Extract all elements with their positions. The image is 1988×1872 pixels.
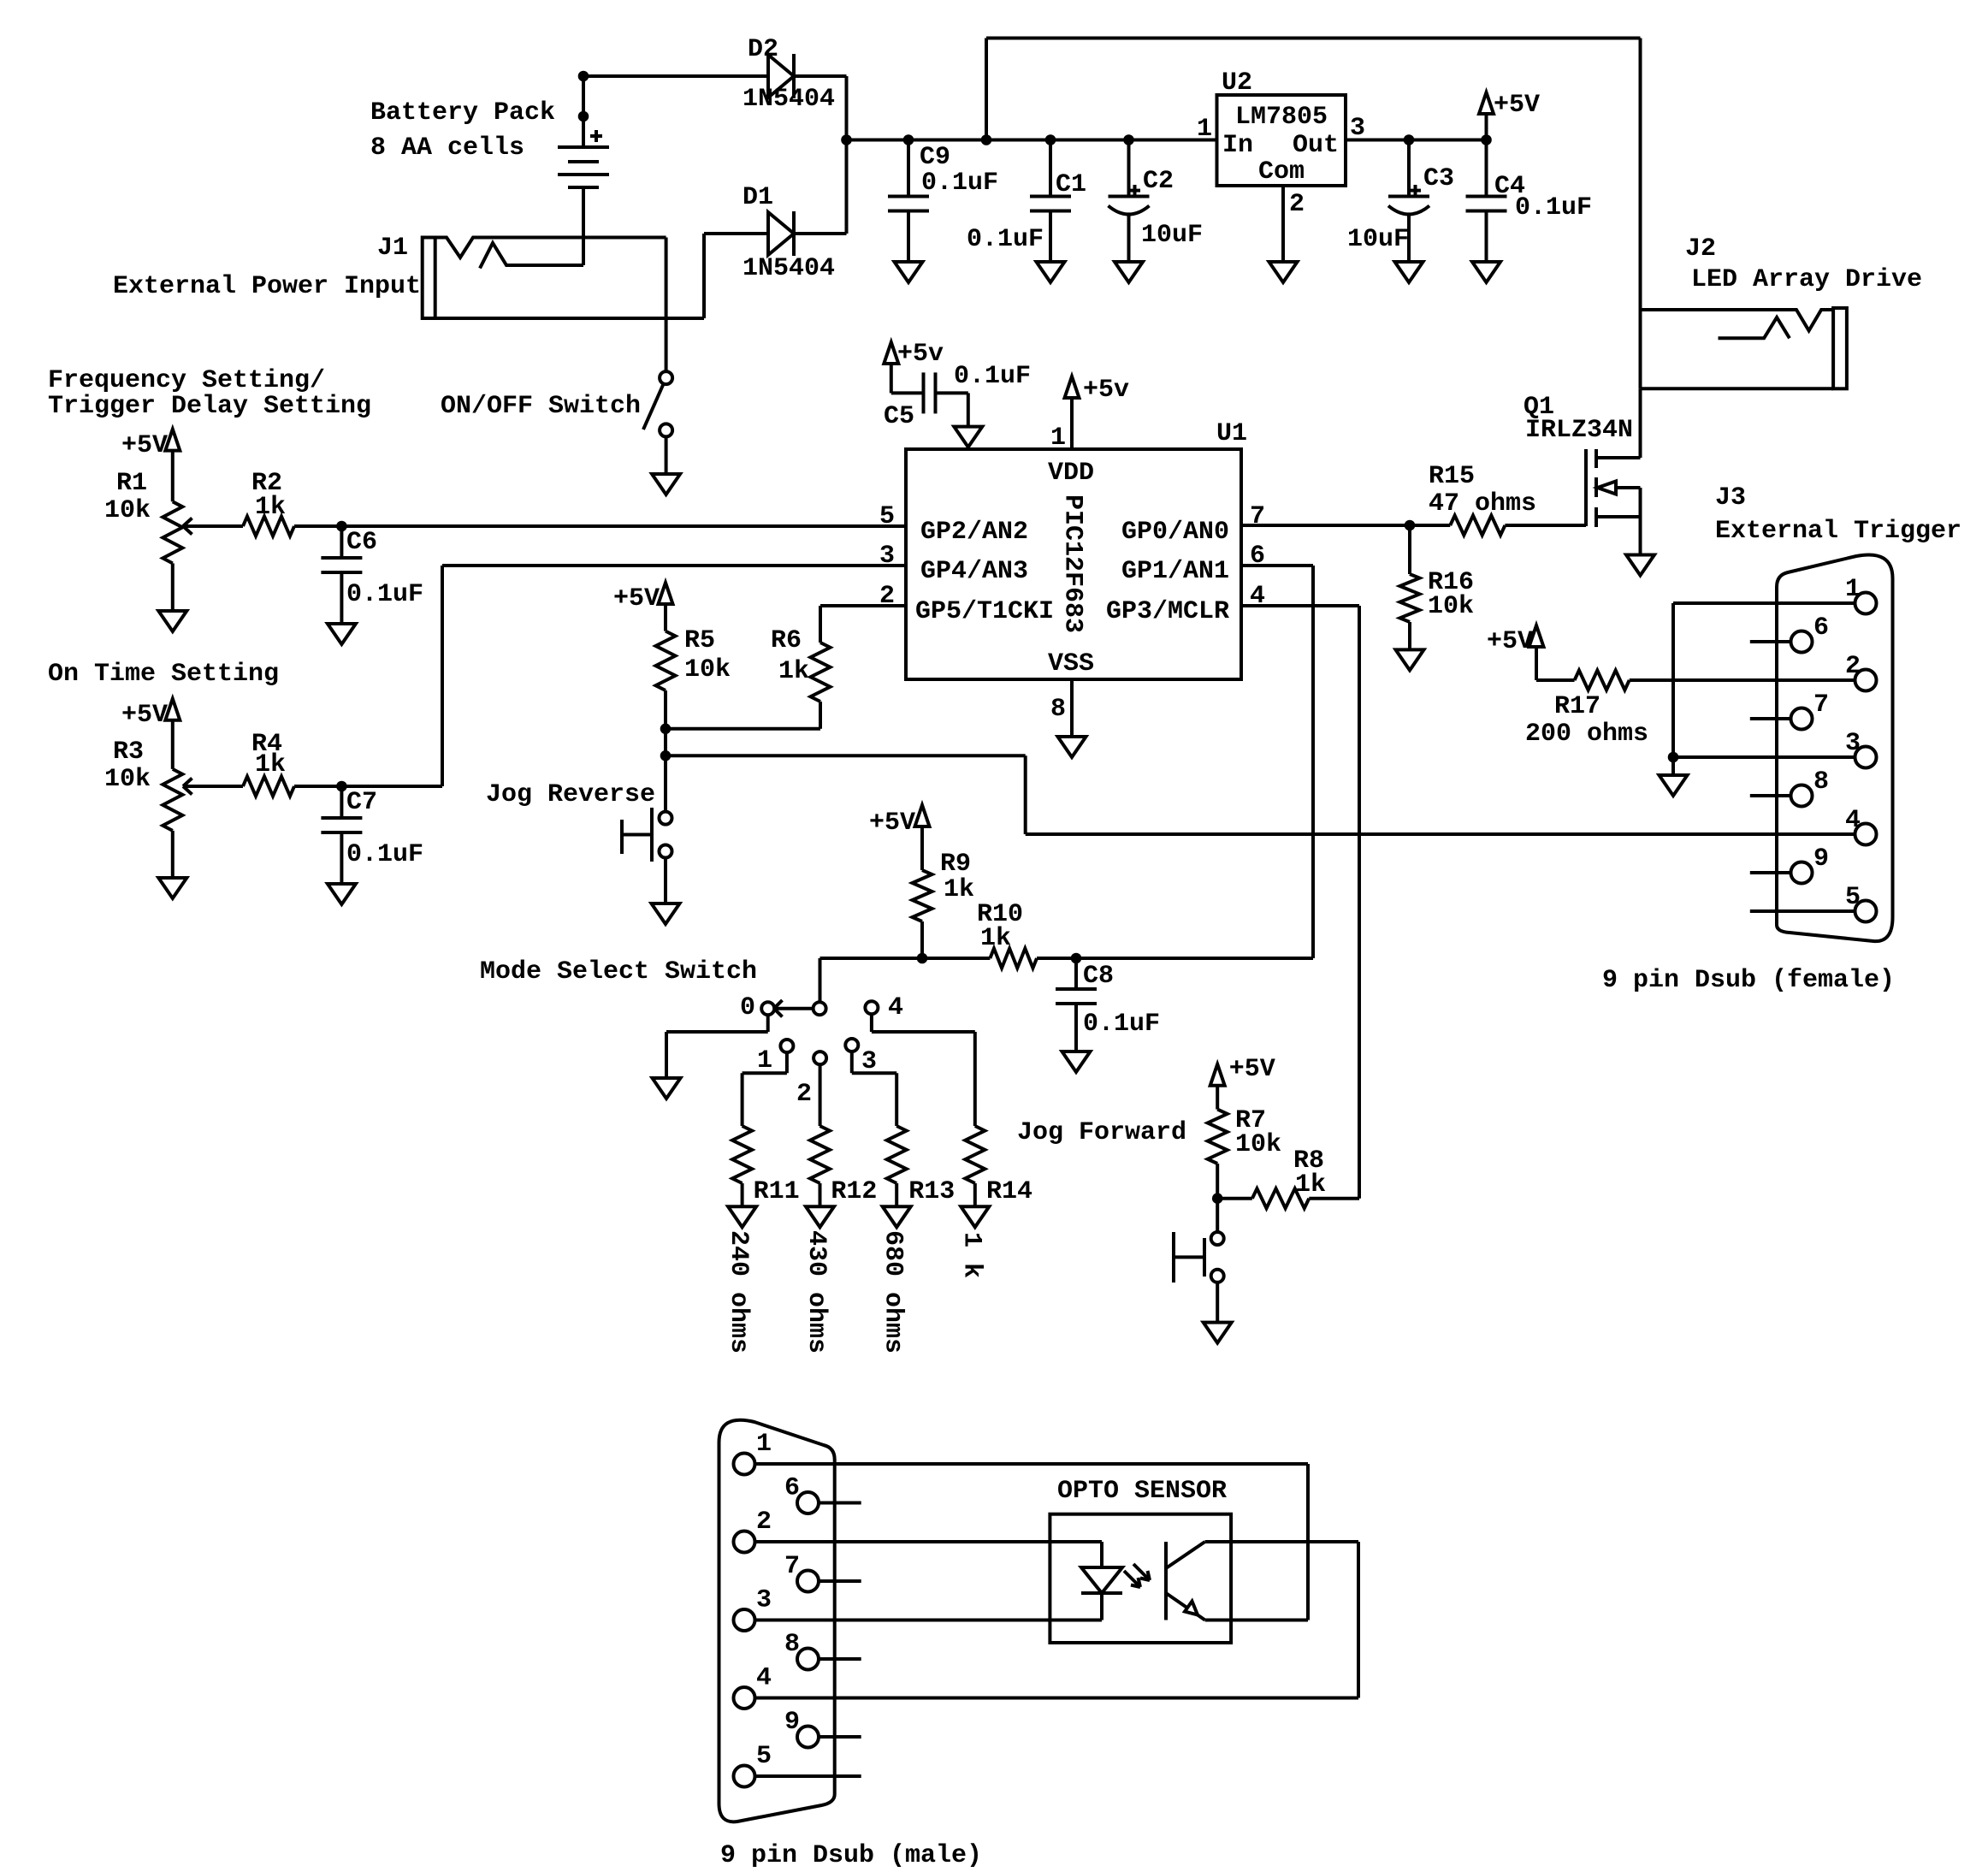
pin 9 J3 <box>1791 844 1830 884</box>
pin 4 J4 <box>734 1664 772 1709</box>
svg-text:+5V: +5V <box>1487 627 1533 656</box>
label 430 ohms <box>802 1230 831 1354</box>
pin 1 J3 <box>1845 575 1877 614</box>
pin 4 J3 <box>1845 806 1877 845</box>
svg-text:R5: R5 <box>684 626 715 655</box>
svg-text:R1: R1 <box>116 469 147 498</box>
svg-text:GP2/AN2: GP2/AN2 <box>920 518 1028 547</box>
pin 8 U1 <box>1050 695 1066 724</box>
pin 1 J4 <box>734 1430 772 1475</box>
svg-text:200 ohms: 200 ohms <box>1525 720 1648 749</box>
wire J3 pin9 stub <box>1750 871 1791 874</box>
label R11 <box>754 1177 800 1206</box>
potentiometer R3 <box>163 769 182 831</box>
label GP0/AN0 <box>1121 518 1229 547</box>
label C7 <box>346 788 423 869</box>
pin 2 U2 <box>1289 190 1305 219</box>
label position 0 <box>740 993 755 1022</box>
svg-text:8: 8 <box>1813 767 1829 797</box>
ground SW1 <box>652 474 680 495</box>
svg-text:6: 6 <box>1813 613 1829 643</box>
power +5V R7 arrow <box>1210 1055 1275 1110</box>
svg-text:0.1uF: 0.1uF <box>346 580 423 609</box>
mode position 2 <box>814 1052 826 1064</box>
label R9 <box>940 850 974 904</box>
wire VSS to ground <box>1070 679 1074 737</box>
ground C3 <box>1395 262 1423 282</box>
wire jog forward to ground <box>1216 1283 1219 1323</box>
label ON/OFF Switch <box>441 392 641 421</box>
svg-text:GP5/T1CKI: GP5/T1CKI <box>915 597 1054 626</box>
capacitor C9 <box>888 140 929 263</box>
potentiometer R1 <box>163 501 182 563</box>
wire U2 pin2 to ground <box>1281 186 1285 262</box>
svg-text:10k: 10k <box>104 765 151 794</box>
resistor R12 <box>810 1126 830 1183</box>
pin 7 U1 <box>1250 502 1265 531</box>
svg-text:10k: 10k <box>104 496 151 525</box>
wire Q2 collector to J4 pin4 <box>755 1542 1359 1698</box>
pushbutton SW2 jog reverse <box>622 808 672 862</box>
pin 2 J4 <box>734 1508 772 1553</box>
opto sensor U3 box <box>1050 1514 1231 1643</box>
opto transistor Q2 <box>1166 1542 1205 1620</box>
resistor R8 <box>1252 1188 1309 1208</box>
junction C9 node <box>903 135 914 145</box>
label C2 <box>1141 167 1203 250</box>
label On Time Setting <box>48 660 279 689</box>
label position 4 <box>888 993 903 1022</box>
svg-text:9 pin Dsub (male): 9 pin Dsub (male) <box>720 1841 982 1870</box>
wire jog forward node to button <box>1216 1199 1219 1232</box>
svg-text:1: 1 <box>1845 575 1861 604</box>
svg-text:0.1uF: 0.1uF <box>954 362 1031 391</box>
wire battery positive to D2 anode <box>583 74 768 78</box>
svg-text:Mode Select Switch: Mode Select Switch <box>480 957 757 986</box>
resistor R13 <box>887 1126 907 1183</box>
junction D1/D2 node <box>842 135 852 145</box>
svg-text:9: 9 <box>1813 844 1829 874</box>
label 240 ohms <box>724 1230 753 1354</box>
pin 3 U1 <box>879 542 895 571</box>
junction C6 node <box>337 521 347 531</box>
wire D1 cathode to main rail <box>794 140 847 234</box>
wire J3 pin7 stub <box>1750 717 1791 720</box>
resistor R14 <box>965 1126 985 1183</box>
label Jog Reverse <box>486 780 655 809</box>
resistor R15 <box>1450 516 1505 536</box>
label 9 pin Dsub female <box>1602 966 1895 995</box>
wire jog forward node to R8 <box>1217 1197 1252 1200</box>
svg-text:6: 6 <box>784 1474 800 1503</box>
capacitor C2 polarized <box>1109 140 1150 263</box>
label Jog Forward <box>1017 1118 1186 1147</box>
wire R6 to jog node <box>666 702 820 729</box>
label GP1/AN1 <box>1121 557 1229 586</box>
ground C6 <box>328 624 356 644</box>
svg-text:1k: 1k <box>944 875 974 904</box>
label Battery Pack <box>370 98 555 163</box>
power +5v C5 arrow <box>884 340 944 369</box>
svg-text:1N5404: 1N5404 <box>743 85 835 114</box>
mode position 0 <box>761 1002 774 1015</box>
svg-text:LM7805: LM7805 <box>1235 103 1328 132</box>
svg-text:0: 0 <box>740 993 755 1022</box>
label R12 <box>831 1177 877 1206</box>
svg-text:8: 8 <box>784 1630 800 1659</box>
junction C8 node <box>1071 953 1081 963</box>
svg-text:430 ohms: 430 ohms <box>802 1230 831 1354</box>
junction battery top node <box>578 71 589 81</box>
ground R16 <box>1396 649 1424 670</box>
resistor R4 <box>243 777 294 797</box>
label R1 <box>104 469 151 525</box>
wire D2 cathode to main rail <box>794 76 847 140</box>
svg-text:+5V: +5V <box>1494 91 1540 120</box>
svg-text:+5V: +5V <box>869 809 915 838</box>
junction C2 node <box>1124 135 1134 145</box>
wire R8 to GP3 net <box>1309 1197 1359 1200</box>
svg-text:C8: C8 <box>1083 962 1114 991</box>
wire R12 to ground <box>819 1183 822 1206</box>
pin 5 J3 <box>1845 883 1877 922</box>
svg-text:1: 1 <box>757 1046 772 1075</box>
connector J3 9 pin Dsub female <box>1777 554 1893 941</box>
resistor R11 <box>732 1126 752 1183</box>
svg-text:J1: J1 <box>377 234 408 263</box>
svg-text:External Trigger: External Trigger <box>1715 517 1961 546</box>
wire J3 ground stub <box>1671 757 1675 775</box>
wire regulated +5V rail <box>1346 139 1487 142</box>
label J2 <box>1685 234 1922 294</box>
wire R17 to J3 pin2 <box>1630 678 1855 682</box>
label R13 <box>908 1177 955 1206</box>
label position 1 <box>757 1046 772 1075</box>
power +5V R1 arrow <box>121 429 180 502</box>
wire mode common stub <box>819 958 822 1003</box>
svg-text:C2: C2 <box>1143 167 1174 196</box>
svg-text:1: 1 <box>1197 115 1212 144</box>
svg-text:R14: R14 <box>986 1177 1032 1206</box>
svg-text:+5V: +5V <box>1229 1055 1275 1084</box>
label R17 <box>1525 692 1648 749</box>
svg-text:4: 4 <box>756 1664 772 1693</box>
capacitor C4 <box>1466 140 1507 263</box>
label C4 <box>1494 172 1592 222</box>
wire J3 pin6 stub <box>1750 640 1791 643</box>
power +5V R3 arrow <box>121 699 180 769</box>
opto LED D3 <box>1081 1567 1122 1593</box>
wire rail to LED jack J2 tip <box>986 39 1641 311</box>
svg-text:LED Array Drive: LED Array Drive <box>1691 265 1922 294</box>
svg-text:4: 4 <box>888 993 903 1022</box>
svg-text:D2: D2 <box>748 35 778 64</box>
wire R4 to GP4 <box>294 566 906 786</box>
power +5V rail arrow <box>1479 91 1540 140</box>
svg-text:GP3/MCLR: GP3/MCLR <box>1106 597 1229 626</box>
svg-text:7: 7 <box>784 1552 800 1581</box>
label R4 <box>251 730 286 779</box>
resistor R10 <box>990 949 1037 969</box>
svg-text:J3: J3 <box>1715 483 1746 512</box>
label R3 <box>104 738 151 794</box>
junction C4 node <box>1482 135 1492 145</box>
svg-text:Trigger Delay Setting: Trigger Delay Setting <box>48 392 371 421</box>
wire GP3 to R8 <box>1241 606 1359 1199</box>
svg-text:In: In <box>1222 131 1253 160</box>
connector J4 9 pin Dsub male <box>719 1420 835 1822</box>
ground U2 <box>1269 262 1298 282</box>
svg-text:10k: 10k <box>684 655 731 684</box>
junction C1 node <box>1045 135 1056 145</box>
junction R5/R6 node <box>660 724 671 734</box>
svg-text:R9: R9 <box>940 850 971 879</box>
wire J4 pin2 to LED anode <box>755 1542 1103 1567</box>
svg-text:1k: 1k <box>1295 1170 1326 1200</box>
svg-text:+5V: +5V <box>121 701 168 730</box>
ground VSS <box>1058 737 1086 757</box>
svg-text:47 ohms: 47 ohms <box>1429 489 1536 518</box>
pot R1 wiper <box>183 518 243 535</box>
svg-text:D1: D1 <box>743 183 773 212</box>
resistor R17 <box>1575 671 1630 690</box>
ground C8 <box>1062 1052 1091 1072</box>
wire position 1 to R11 <box>743 1052 787 1126</box>
power +5V R17 arrow <box>1487 625 1544 680</box>
wire J4 pin8 stub <box>819 1657 861 1661</box>
pin 3 J4 <box>734 1586 772 1632</box>
svg-text:OPTO SENSOR: OPTO SENSOR <box>1057 1477 1227 1506</box>
svg-text:R3: R3 <box>113 738 144 767</box>
ground mode position 0 <box>653 1078 681 1099</box>
power +5v VDD arrow <box>1065 376 1130 449</box>
svg-text:GP1/AN1: GP1/AN1 <box>1121 557 1229 586</box>
svg-text:VSS: VSS <box>1048 649 1094 678</box>
svg-text:3: 3 <box>1845 729 1861 758</box>
label External Power Input <box>113 272 421 301</box>
capacitor C3 polarized <box>1388 140 1429 263</box>
capacitor C7 <box>321 786 362 884</box>
svg-text:10k: 10k <box>1235 1130 1281 1159</box>
label GP5/T1CKI <box>915 597 1054 626</box>
wire J4 pin5 stub <box>755 1774 861 1778</box>
ground R3 <box>158 878 186 898</box>
label C6 <box>346 528 423 609</box>
label R16 <box>1428 568 1474 621</box>
svg-text:R13: R13 <box>908 1177 955 1206</box>
wire R10 to GP1 net <box>1037 957 1313 960</box>
svg-text:Jog Forward: Jog Forward <box>1017 1118 1186 1147</box>
svg-text:1: 1 <box>756 1430 772 1459</box>
svg-text:2: 2 <box>796 1080 812 1109</box>
wire GP5 to R6 <box>820 606 906 643</box>
svg-text:+5v: +5v <box>897 340 944 369</box>
pushbutton SW4 jog forward <box>1174 1232 1224 1283</box>
wire R17 left <box>1536 678 1575 682</box>
label R6 <box>771 626 809 686</box>
label 1 k <box>956 1232 985 1278</box>
svg-text:9: 9 <box>784 1708 800 1737</box>
svg-text:4: 4 <box>1845 806 1861 835</box>
label D2 <box>743 35 835 114</box>
wire J4 pin9 stub <box>819 1735 861 1739</box>
wire R16 top <box>1408 525 1411 574</box>
label R15 <box>1429 462 1536 518</box>
junction jog forward node <box>1212 1194 1222 1204</box>
wire R1 to ground <box>171 563 175 611</box>
wire R3 to ground <box>171 831 175 878</box>
diode D2 <box>768 54 794 98</box>
svg-text:U1: U1 <box>1216 419 1247 448</box>
wire Q2 emitter to J4 pin1 <box>755 1464 1309 1620</box>
svg-text:0.1uF: 0.1uF <box>346 840 423 869</box>
wire J3 pin8 stub <box>1750 794 1791 797</box>
wire battery negative lead <box>582 187 585 265</box>
wire J2 sleeve to Q1 drain <box>1639 310 1642 458</box>
capacitor C5 <box>891 364 968 427</box>
label R8 <box>1293 1146 1326 1200</box>
wire LED cathode to J4 pin3 <box>755 1593 1103 1620</box>
wire mode common net <box>820 957 991 960</box>
svg-text:C6: C6 <box>346 528 377 557</box>
svg-text:Com: Com <box>1258 157 1305 187</box>
label Frequency Setting <box>48 366 371 421</box>
label U1 <box>1216 419 1247 448</box>
ground SW4 <box>1204 1323 1232 1343</box>
wire position 4 to R14 <box>872 1014 975 1126</box>
svg-text:1k: 1k <box>255 750 286 779</box>
wire R13 to ground <box>895 1183 898 1206</box>
ground R14 <box>961 1206 989 1227</box>
wire R9 bottom <box>920 921 924 958</box>
svg-text:680 ohms: 680 ohms <box>879 1230 908 1354</box>
svg-text:VDD: VDD <box>1048 459 1094 488</box>
junction jog reverse trigger node <box>660 751 671 761</box>
label 680 ohms <box>879 1230 908 1354</box>
capacitor C1 <box>1030 140 1071 263</box>
pot R3 wiper <box>183 779 243 795</box>
svg-text:J2: J2 <box>1685 234 1716 264</box>
wire R2 to GP2 <box>294 524 906 528</box>
label GP2/AN2 <box>920 518 1028 547</box>
svg-text:+5V: +5V <box>613 584 660 613</box>
transistor Q1 IRLZ34N <box>1586 449 1641 555</box>
wire jog node to J3 pin4 <box>666 755 1855 834</box>
rotary switch SW3 common <box>814 1002 826 1015</box>
power +5V R9 arrow <box>869 805 930 870</box>
ground C5 <box>954 427 982 447</box>
pin 7 J4 <box>784 1552 819 1592</box>
svg-text:8 AA cells: 8 AA cells <box>370 133 524 163</box>
pin 7 J3 <box>1791 690 1830 730</box>
ground C2 <box>1115 262 1143 282</box>
pin 9 J4 <box>784 1708 819 1748</box>
pin 2 U1 <box>879 582 895 611</box>
pin 6 U1 <box>1250 542 1265 571</box>
wire position 3 to R13 <box>852 1052 896 1126</box>
svg-text:5: 5 <box>1845 883 1861 912</box>
svg-text:2: 2 <box>1289 190 1305 219</box>
regulator U2 LM7805 <box>1217 95 1346 187</box>
resistor R7 <box>1208 1110 1228 1164</box>
IC U1 PIC12F683 <box>906 449 1241 679</box>
svg-text:R12: R12 <box>831 1177 877 1206</box>
svg-text:C9: C9 <box>920 143 950 172</box>
junction top feed node <box>981 135 991 145</box>
svg-text:R11: R11 <box>754 1177 800 1206</box>
label GP4/AN3 <box>920 557 1028 586</box>
wire J3 pin5 stub <box>1750 909 1855 913</box>
ground R12 <box>806 1206 834 1227</box>
ground R11 <box>728 1206 756 1227</box>
label C3 <box>1347 164 1454 254</box>
pin 3 U2 <box>1350 114 1365 143</box>
pin 1 U2 <box>1197 115 1212 144</box>
label R5 <box>684 626 731 684</box>
mode position 1 <box>780 1040 793 1052</box>
connector J2 LED array jack <box>1641 308 1847 388</box>
wire position 2 to R12 <box>819 1064 822 1126</box>
label GP3/MCLR <box>1106 597 1229 626</box>
svg-text:IRLZ34N: IRLZ34N <box>1525 416 1633 445</box>
svg-text:Frequency Setting/: Frequency Setting/ <box>48 366 325 395</box>
label U2 <box>1222 68 1252 98</box>
label Mode Select Switch <box>480 957 757 986</box>
label J1 <box>377 234 408 263</box>
svg-text:240 ohms: 240 ohms <box>724 1230 753 1354</box>
svg-text:GP0/AN0: GP0/AN0 <box>1121 518 1229 547</box>
svg-text:0.1uF: 0.1uF <box>921 169 998 198</box>
wire switch to ground <box>665 436 668 474</box>
svg-text:Jog Reverse: Jog Reverse <box>486 780 655 809</box>
ground J3 <box>1660 775 1688 796</box>
ground C7 <box>328 884 356 904</box>
wire R15 to Q1 gate <box>1505 524 1586 527</box>
svg-text:0.1uF: 0.1uF <box>1515 193 1592 222</box>
svg-text:External Power Input: External Power Input <box>113 272 421 301</box>
switch SW1 ON/OFF <box>643 371 672 436</box>
label R14 <box>986 1177 1032 1206</box>
svg-text:2: 2 <box>1845 652 1861 681</box>
svg-text:10uF: 10uF <box>1141 221 1203 250</box>
resistor R16 <box>1400 574 1420 622</box>
svg-text:2: 2 <box>756 1508 772 1537</box>
label J3 <box>1715 483 1961 546</box>
capacitor C8 <box>1056 958 1097 1052</box>
pin 6 J3 <box>1791 613 1830 653</box>
pin 2 J3 <box>1845 652 1877 691</box>
wire J1 to D1 anode <box>704 234 768 318</box>
resistor R5 <box>656 631 676 690</box>
wire GP1 to mode net <box>1241 566 1313 958</box>
junction C3 node <box>1404 135 1414 145</box>
battery pack BT1 <box>558 130 609 187</box>
svg-text:+5V: +5V <box>121 431 168 460</box>
svg-text:Battery Pack: Battery Pack <box>370 98 555 127</box>
svg-text:10uF: 10uF <box>1347 225 1409 254</box>
svg-text:U2: U2 <box>1222 68 1252 98</box>
junction R9 node <box>917 953 927 963</box>
wire J1 sleeve to switch <box>665 318 668 371</box>
wire R14 to ground <box>973 1183 977 1206</box>
ground C9 <box>895 262 923 282</box>
wire R5 to jog node <box>664 690 667 729</box>
wire R7 to jog forward node <box>1216 1164 1219 1199</box>
svg-text:ON/OFF Switch: ON/OFF Switch <box>441 392 641 421</box>
wire battery top lead <box>582 76 585 147</box>
svg-text:R17: R17 <box>1554 692 1600 721</box>
pin 6 J4 <box>784 1474 819 1514</box>
